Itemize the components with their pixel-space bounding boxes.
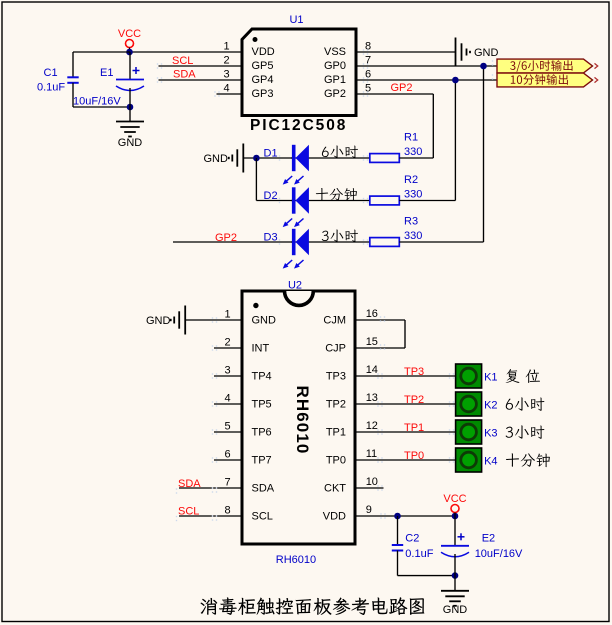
svg-text:TP2: TP2	[326, 399, 346, 411]
svg-text:R3: R3	[404, 216, 418, 228]
svg-text:K4: K4	[484, 456, 497, 468]
svg-text:VCC: VCC	[118, 28, 141, 40]
svg-text:C2: C2	[405, 533, 419, 545]
svg-text:CKT: CKT	[324, 483, 346, 495]
svg-text:10: 10	[366, 476, 378, 488]
svg-text:GND: GND	[118, 137, 143, 149]
svg-text:GP2: GP2	[324, 88, 346, 100]
svg-text:2: 2	[224, 55, 230, 67]
svg-text:R2: R2	[404, 174, 418, 186]
svg-text:GND: GND	[252, 315, 277, 327]
svg-text:GP2: GP2	[391, 82, 413, 94]
svg-text:K1: K1	[484, 372, 497, 384]
svg-text:TP7: TP7	[252, 455, 272, 467]
svg-text:TP0: TP0	[326, 455, 346, 467]
svg-text:10uF/16V: 10uF/16V	[475, 548, 523, 560]
svg-text:GND: GND	[146, 315, 171, 327]
svg-text:SCL: SCL	[172, 55, 193, 67]
svg-text:0.1uF: 0.1uF	[405, 548, 433, 560]
svg-text:1: 1	[224, 41, 230, 53]
svg-text:2: 2	[225, 337, 231, 349]
svg-text:GP3: GP3	[252, 88, 274, 100]
svg-text:RH6010: RH6010	[293, 386, 312, 455]
svg-text:SDA: SDA	[173, 69, 196, 81]
svg-text:3: 3	[225, 365, 231, 377]
svg-text:U1: U1	[289, 14, 303, 26]
svg-text:7: 7	[225, 477, 231, 489]
svg-text:TP3: TP3	[326, 371, 346, 383]
svg-text:4: 4	[225, 393, 231, 405]
svg-text:R1: R1	[404, 132, 418, 144]
svg-text:TP1: TP1	[404, 422, 424, 434]
svg-text:8: 8	[225, 505, 231, 517]
svg-text:U2: U2	[288, 280, 302, 292]
svg-text:C1: C1	[44, 67, 58, 79]
svg-text:SDA: SDA	[252, 483, 275, 495]
svg-text:TP2: TP2	[404, 394, 424, 406]
svg-text:3: 3	[224, 69, 230, 81]
svg-text:GND: GND	[474, 47, 499, 59]
svg-text:GP0: GP0	[324, 60, 346, 72]
svg-text:14: 14	[366, 364, 378, 376]
svg-text:GND: GND	[204, 153, 229, 165]
svg-text:GND: GND	[443, 604, 468, 616]
svg-text:13: 13	[366, 392, 378, 404]
svg-text:TP6: TP6	[252, 427, 272, 439]
svg-text:E1: E1	[100, 67, 113, 79]
svg-text:4: 4	[224, 83, 230, 95]
svg-text:D1: D1	[264, 148, 278, 160]
svg-text:TP5: TP5	[252, 399, 272, 411]
svg-text:16: 16	[366, 308, 378, 320]
svg-text:330: 330	[404, 146, 422, 158]
svg-text:1: 1	[225, 309, 231, 321]
svg-text:CJM: CJM	[323, 315, 346, 327]
svg-text:PIC12C508: PIC12C508	[250, 117, 347, 134]
svg-text:VCC: VCC	[443, 493, 466, 505]
svg-text:SCL: SCL	[178, 506, 199, 518]
svg-text:GP5: GP5	[252, 60, 274, 72]
svg-text:10uF/16V: 10uF/16V	[73, 96, 121, 108]
svg-text:9: 9	[366, 504, 372, 516]
svg-text:SCL: SCL	[252, 511, 273, 523]
svg-text:0.1uF: 0.1uF	[37, 82, 65, 94]
svg-text:VDD: VDD	[252, 46, 275, 58]
svg-text:CJP: CJP	[325, 343, 346, 355]
svg-text:GP2: GP2	[215, 232, 237, 244]
svg-text:6: 6	[225, 449, 231, 461]
svg-text:RH6010: RH6010	[276, 554, 316, 566]
svg-text:GP1: GP1	[324, 74, 346, 86]
svg-text:5: 5	[225, 421, 231, 433]
svg-text:K2: K2	[484, 400, 497, 412]
svg-text:K3: K3	[484, 428, 497, 440]
svg-text:E2: E2	[482, 533, 495, 545]
svg-text:INT: INT	[252, 343, 270, 355]
svg-text:12: 12	[366, 420, 378, 432]
svg-text:15: 15	[366, 336, 378, 348]
svg-text:TP3: TP3	[404, 366, 424, 378]
svg-text:VSS: VSS	[324, 46, 346, 58]
svg-text:D2: D2	[264, 190, 278, 202]
svg-text:330: 330	[404, 230, 422, 242]
svg-text:11: 11	[366, 448, 377, 460]
svg-text:D3: D3	[264, 232, 278, 244]
svg-text:TP1: TP1	[326, 427, 346, 439]
svg-text:330: 330	[404, 189, 422, 201]
svg-text:SDA: SDA	[178, 478, 201, 490]
svg-text:GP4: GP4	[252, 74, 274, 86]
svg-text:VDD: VDD	[323, 511, 346, 523]
svg-text:TP0: TP0	[404, 450, 424, 462]
svg-text:TP4: TP4	[252, 371, 272, 383]
